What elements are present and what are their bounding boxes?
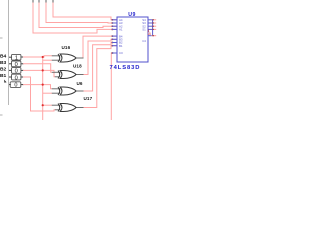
junction dot U17 tap — [42, 104, 44, 106]
gate U18 body — [60, 71, 76, 79]
U9 left pin B3 — [112, 38, 117, 40]
gate U16 input stubs — [52, 55, 61, 57]
gate U18 xor input arc — [58, 71, 60, 79]
wire output U6 to B2 pin — [83, 43, 117, 92]
switch box SUB — [10, 82, 21, 88]
svg-text:B4: B4 — [0, 53, 7, 59]
U9 right pin S4 — [148, 19, 153, 21]
tick on left edge — [0, 37, 3, 39]
U9 left pin B2 — [112, 42, 117, 44]
U9 left pin A2 — [112, 25, 117, 27]
svg-text:B1: B1 — [0, 73, 7, 79]
wire tap to gate U16 lower input — [43, 59, 52, 61]
gate U6 input stubs — [52, 88, 61, 90]
U9 left pin B1 — [112, 45, 117, 47]
cursor mark — [4, 80, 7, 83]
U9 right pin S2 — [148, 25, 153, 27]
svg-text:0: 0 — [14, 83, 17, 89]
wire A4 vertical from top — [53, 0, 117, 20]
gate U16 body — [60, 54, 76, 62]
junction dot B2/SUB — [42, 69, 44, 71]
U9 right pin S1 — [148, 28, 153, 30]
gate U6 output stub — [76, 90, 84, 92]
wire output U18 to B3 pin — [83, 39, 117, 74]
U9 right pin S3 — [148, 22, 153, 24]
wire tap to gate U17 upper input — [43, 104, 52, 106]
switch box B4 — [12, 54, 21, 60]
gate U16 output stub — [76, 57, 84, 59]
wire A1 top cap — [32, 0, 34, 3]
svg-text:U6: U6 — [77, 81, 83, 86]
wire C0 down to bottom — [111, 53, 113, 120]
gate U16 xor input arc — [58, 54, 60, 62]
U9 left pin C0 — [112, 52, 117, 54]
switch box B1 — [12, 74, 21, 80]
gate U17 input stubs — [52, 104, 61, 106]
svg-text:15: 15 — [147, 32, 151, 36]
svg-text:B1: B1 — [119, 44, 123, 48]
svg-text:B2: B2 — [0, 67, 7, 73]
wire A1 vertical from top — [33, 0, 117, 33]
wire S2 stub — [153, 25, 157, 27]
wire tap to gate U6 upper input — [43, 85, 52, 89]
svg-text:C0: C0 — [119, 51, 123, 55]
wire S1 stub — [153, 28, 157, 30]
wire A2 top cap — [38, 0, 40, 3]
wire from switch B2 to gate U18 lower input — [23, 70, 55, 76]
svg-text:A1: A1 — [119, 28, 123, 32]
svg-text:U9: U9 — [128, 12, 135, 18]
bus line left — [8, 0, 10, 105]
svg-text:U17: U17 — [84, 96, 93, 101]
switch output stubs — [21, 56, 24, 58]
wire output U16 to B4 pin — [83, 36, 117, 58]
gate U17 output stub — [76, 107, 84, 109]
svg-text:S1: S1 — [142, 28, 146, 32]
junction dot B4/SUB — [42, 56, 44, 58]
switch box B3 — [12, 61, 21, 67]
U9 right pin C4 — [148, 35, 152, 37]
wire A3 vertical from top — [46, 0, 117, 23]
switch box B2 — [12, 68, 21, 74]
wire C4 stub — [152, 35, 157, 37]
wire S bus vertical — [152, 20, 154, 36]
wire from switch SUB — [23, 84, 43, 86]
U9 left pin A1 — [112, 28, 117, 30]
wire A4 top cap — [52, 0, 54, 3]
svg-text:B3: B3 — [0, 60, 7, 66]
wire from switch B4 to gate U16 — [23, 56, 52, 57]
wire A3 top cap — [45, 0, 47, 3]
svg-text:U18: U18 — [73, 64, 82, 69]
wire tap to gate U6 lower input — [43, 92, 52, 94]
wire S4 stub — [153, 19, 157, 21]
svg-text:74LS83D: 74LS83D — [110, 65, 141, 71]
gate U18 output stub — [76, 74, 84, 76]
U9 left pin A4 — [112, 19, 117, 21]
wire SUB vertical — [42, 57, 44, 120]
gate U18 input stubs — [52, 71, 61, 73]
gate U6 body — [60, 87, 76, 95]
wire output U17 to B1 pin — [83, 46, 117, 108]
pin junction caps — [112, 19, 114, 21]
junction cap C0 — [112, 52, 114, 54]
svg-text:C4: C4 — [142, 39, 146, 43]
U9 left pin A3 — [112, 22, 117, 24]
gate U17 xor input arc — [58, 104, 60, 112]
svg-text:U16: U16 — [62, 45, 71, 50]
gate U17 body — [60, 104, 76, 112]
wire A2 vertical from top — [39, 0, 117, 28]
gate U6 xor input arc — [58, 87, 60, 95]
svg-text:0: 0 — [15, 75, 18, 81]
U9 left pin B4 — [112, 35, 117, 37]
wire from switch B1 to gate U17 lower input — [23, 77, 55, 111]
junction dot SUB switch — [42, 84, 44, 86]
wire from switch B3 to gate U18 — [23, 64, 52, 73]
IC U9 box — [117, 17, 148, 62]
wire S3 stub — [153, 22, 157, 24]
